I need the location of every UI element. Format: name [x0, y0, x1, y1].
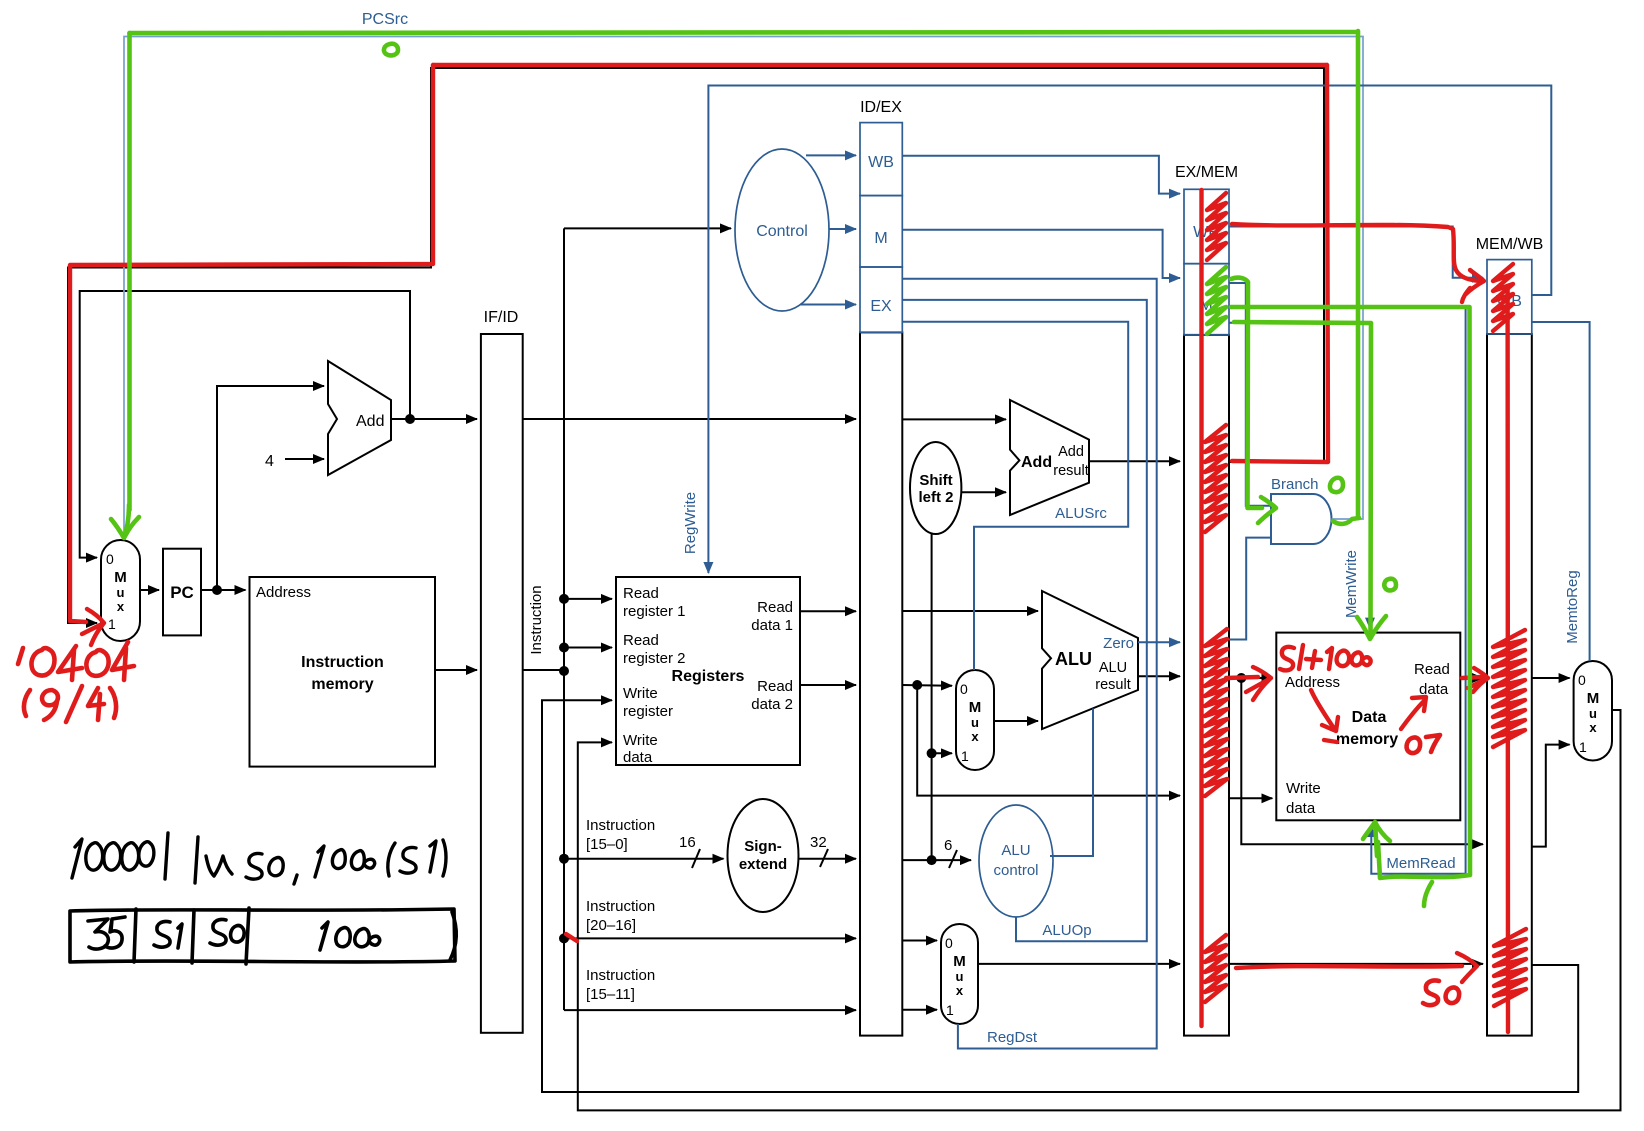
red trace regnum wire with S0: [1236, 966, 1462, 968]
wire read data 1 from ID/EX to ALU: [902, 610, 1038, 612]
svg-text:1: 1: [946, 1002, 954, 1018]
red trace left loop to mux 1: [70, 65, 433, 622]
red arrowhead into MEM/WB WB: [1462, 270, 1484, 302]
red vertical through EX/MEM: [1199, 190, 1203, 1026]
wire ALU result to EX/MEM: [1138, 675, 1180, 677]
svg-text:[20–16]: [20–16]: [586, 917, 636, 934]
wire read data 2 to ID/EX: [800, 684, 856, 686]
svg-text:Write: Write: [623, 732, 658, 749]
wire read data 1 to ID/EX: [800, 610, 856, 612]
green trace PCSrc right vertical: [1356, 31, 1361, 518]
red arrow address to memory: [1311, 690, 1333, 727]
wire register number feedback to write register: [542, 700, 1578, 1092]
wire Control to ID/EX EX: [800, 304, 856, 306]
wire PC up to Add input 1: [217, 386, 324, 590]
svg-text:Write: Write: [1286, 780, 1321, 797]
wire MemtoReg from MEM/WB to mux select: [1532, 322, 1590, 661]
handwritten 100: [320, 922, 328, 950]
svg-text:control: control: [993, 862, 1038, 879]
green trace PCSrc top: [130, 32, 1357, 33]
svg-text:M: M: [953, 953, 966, 970]
svg-text:Zero: Zero: [1103, 635, 1134, 652]
svg-text:Branch: Branch: [1271, 476, 1319, 493]
svg-text:Instruction: Instruction: [528, 585, 545, 654]
data memory: [1276, 633, 1460, 821]
wire Add output to IF/ID: [391, 418, 477, 420]
wire Control to ID/EX M: [829, 228, 856, 230]
wire immediate from ID/EX to ALU control: [902, 859, 971, 861]
svg-text:RegWrite: RegWrite: [682, 492, 699, 554]
handwritten 35: [88, 919, 108, 949]
svg-text:WB: WB: [868, 154, 894, 171]
red trace over branch-target wire: [1232, 224, 1479, 281]
svg-text:EX: EX: [870, 298, 892, 315]
EX/MEM pipeline register: [1184, 335, 1229, 1036]
svg-text:M: M: [969, 699, 982, 716]
red arrowhead into address: [1246, 667, 1271, 700]
svg-text:extend: extend: [739, 856, 787, 873]
svg-text:u: u: [956, 969, 964, 984]
wire instruction [15-11] to ID/EX: [564, 1009, 856, 1011]
EX/MEM M box: [1184, 264, 1229, 335]
green zero scribble near PCSrc: [384, 44, 398, 56]
wire PC+4 through IF/ID to ID/EX: [523, 418, 856, 420]
svg-text:x: x: [956, 983, 964, 998]
green zero near Branch label: [1330, 478, 1343, 492]
red scribble EX/MEM WB box: [1207, 193, 1226, 260]
box right hook: [450, 912, 456, 960]
registers file: [616, 577, 800, 765]
wire read data 2 from ID/EX to ALUSrc mux 0: [902, 684, 952, 687]
green trace branch signal to AND gate: [1231, 278, 1262, 508]
svg-text:EX/MEM: EX/MEM: [1175, 164, 1238, 181]
blue text labels: [362, 11, 1581, 1046]
svg-text:32: 32: [810, 834, 827, 851]
svg-text:u: u: [1589, 706, 1597, 721]
svg-text:data: data: [1286, 800, 1316, 817]
green trace MemRead: [1231, 307, 1470, 878]
svg-text:1: 1: [108, 616, 116, 632]
wire MemWrite control: [1229, 323, 1370, 629]
green trace PCSrc left vertical with arrow: [127, 33, 132, 510]
slash 16-bit bus: [692, 849, 700, 868]
red vertical through MEM/WB: [1505, 290, 1510, 1032]
wire read data from memory to MEM/WB: [1460, 677, 1483, 679]
green hand annotations: [111, 31, 1470, 906]
wire ALU result from EX/MEM to data memory address: [1229, 677, 1272, 679]
svg-text:register: register: [623, 703, 673, 720]
wire RegDst mux output to EX/MEM: [978, 963, 1180, 965]
svg-text:PC: PC: [170, 583, 194, 602]
svg-text:1: 1: [961, 748, 969, 764]
blue control layer: [124, 37, 1590, 1049]
branch AND gate: [1271, 494, 1332, 544]
svg-text:Data: Data: [1352, 709, 1387, 726]
svg-text:ALU: ALU: [1099, 660, 1127, 676]
svg-text:M: M: [114, 569, 127, 586]
red hand text S1+100: [1280, 645, 1371, 670]
svg-text:result: result: [1053, 463, 1088, 479]
red trace top horizontal: [433, 63, 1327, 67]
svg-text:MemtoReg: MemtoReg: [1564, 570, 1581, 643]
MEM/WB pipeline register: [1487, 334, 1532, 1036]
svg-text:Add: Add: [1058, 444, 1084, 460]
svg-text:Read: Read: [1414, 661, 1450, 678]
svg-text:Write: Write: [623, 685, 658, 702]
svg-text:memory: memory: [1336, 731, 1398, 748]
wire ALUSrc control: [902, 322, 1128, 670]
wire ALUSrc mux output to ALU: [994, 720, 1038, 722]
red scribble MEM/WB regnum: [1494, 929, 1526, 1006]
wire M bundle ID/EX to EX/MEM: [902, 230, 1180, 278]
svg-text:ALUSrc: ALUSrc: [1055, 505, 1107, 522]
wire immediate to ALUSrc mux 1: [932, 752, 952, 754]
svg-text:0: 0: [945, 935, 953, 951]
svg-text:Instruction: Instruction: [586, 817, 655, 834]
wire zero from EX/MEM to AND gate: [1229, 538, 1271, 640]
svg-text:register 1: register 1: [623, 603, 686, 620]
MEM/WB WB box: [1487, 260, 1532, 334]
svg-text:ALU: ALU: [1055, 649, 1092, 669]
red scribble EX/MEM alu-result: [1205, 629, 1227, 796]
wire ALU result bypass below data memory to MEM/WB: [1241, 678, 1483, 844]
svg-text:data: data: [623, 749, 653, 766]
PC register: [163, 549, 201, 636]
ID/EX pipeline register: [860, 332, 902, 1035]
svg-text:0: 0: [1578, 672, 1586, 688]
svg-text:IF/ID: IF/ID: [484, 309, 519, 326]
svg-text:MemRead: MemRead: [1386, 855, 1455, 872]
svg-text:memory: memory: [311, 676, 373, 693]
red tick at instruction [20-16] junction: [566, 934, 577, 941]
svg-text:[15–0]: [15–0]: [586, 836, 628, 853]
black handwriting: [70, 833, 456, 964]
MemtoReg mux: [1574, 661, 1612, 761]
red hand text 0404: [18, 642, 134, 680]
svg-text:Read: Read: [623, 632, 659, 649]
svg-text:Instruction: Instruction: [586, 898, 655, 915]
sign-extend unit: [728, 799, 799, 912]
svg-text:result: result: [1095, 677, 1130, 693]
svg-text:PCSrc: PCSrc: [362, 11, 408, 28]
wire WB bundle ID/EX to EX/MEM: [902, 156, 1180, 194]
green scribble EX/MEM M box: [1207, 267, 1226, 334]
wire ALUOp control: [902, 300, 1147, 941]
svg-text:ALU: ALU: [1001, 842, 1030, 859]
wire read data from MEM/WB to MemtoReg mux 0: [1532, 677, 1570, 679]
red scribble MEM/WB WB box: [1493, 264, 1513, 331]
wire PC+4 from ID/EX to branch adder: [902, 418, 1006, 420]
svg-text:x: x: [117, 599, 125, 614]
svg-text:0: 0: [960, 681, 968, 697]
red trace read data output: [1462, 677, 1482, 678]
EX/MEM WB box: [1184, 189, 1229, 263]
wire Control to ID/EX WB: [806, 154, 856, 156]
svg-text:0: 0: [106, 551, 114, 567]
wire instruction memory to IF/ID: [435, 669, 477, 671]
red trace address wire: [1226, 677, 1258, 678]
svg-text:6: 6: [944, 837, 952, 854]
red arrowhead into MEM/WB regnum: [1457, 953, 1477, 982]
PC mux: [101, 540, 140, 641]
wire PCSrc from AND gate to PC mux select: [124, 37, 1363, 537]
svg-text:Instruction: Instruction: [301, 654, 384, 671]
wire instruction from IF/ID: [523, 669, 564, 671]
ID/EX WB box: [860, 123, 902, 196]
svg-text:Sign-: Sign-: [744, 838, 782, 855]
wire RegDst control: [902, 279, 1156, 1049]
green squiggle AND gate output: [1333, 518, 1359, 524]
svg-text:left 2: left 2: [918, 489, 953, 506]
handwritten S1: [154, 921, 170, 947]
red hand text S0: [1423, 980, 1459, 1005]
main ALU: [1042, 591, 1138, 729]
box divider 2: [192, 910, 194, 963]
svg-text:Add: Add: [1021, 454, 1052, 471]
wire constant 4 to Add: [285, 458, 324, 460]
wire branch control to AND gate: [1229, 283, 1271, 506]
wire instr [15-11] to RegDst mux 1: [902, 1009, 937, 1011]
red scribble EX/MEM regnum: [1205, 935, 1226, 1002]
wire instruction to read register 1: [564, 598, 612, 600]
instruction memory: [250, 577, 436, 767]
svg-text:4: 4: [265, 453, 274, 470]
PC+4 adder: [328, 361, 391, 475]
wire shift left 2 to branch adder: [961, 491, 1006, 493]
red scribble MEM/WB read-data: [1493, 630, 1525, 747]
red scribble EX/MEM add-result: [1205, 425, 1226, 532]
svg-text:register 2: register 2: [623, 650, 686, 667]
svg-text:u: u: [117, 585, 125, 600]
red arrow memory to read data: [1401, 701, 1424, 729]
svg-text:Registers: Registers: [672, 668, 745, 685]
green slash below MemRead: [1424, 882, 1432, 906]
svg-text:Instruction: Instruction: [586, 967, 655, 984]
wire RegWrite from MEM/WB to registers: [708, 86, 1551, 574]
wire instr [20-16] to RegDst mux 0: [902, 940, 937, 942]
svg-text:data 2: data 2: [751, 696, 793, 713]
wire instruction [20-16] to ID/EX: [564, 937, 856, 939]
svg-text:Shift: Shift: [919, 472, 952, 489]
wire PC to instruction memory Address: [201, 589, 246, 591]
shift left 2 unit: [910, 442, 961, 534]
ALU control oval: [979, 805, 1053, 917]
svg-text:Control: Control: [756, 223, 808, 240]
wire ALU result from MEM/WB to MemtoReg mux 1: [1532, 745, 1570, 847]
svg-text:data 1: data 1: [751, 617, 793, 634]
svg-text:RegDst: RegDst: [987, 1029, 1038, 1046]
svg-text:Read: Read: [757, 678, 793, 695]
green trace MemWrite: [1234, 322, 1371, 634]
wire instruction to read register 2: [564, 647, 612, 649]
svg-text:16: 16: [679, 834, 696, 851]
wire register number from EX/MEM to MEM/WB: [1229, 963, 1483, 965]
svg-text:Add: Add: [356, 413, 384, 430]
wire immediate vertical to shift left 2: [931, 534, 933, 860]
svg-text:MEM/WB: MEM/WB: [1476, 236, 1544, 253]
svg-text:ALUOp: ALUOp: [1042, 922, 1091, 939]
wire sign-extend output to ID/EX: [799, 858, 856, 860]
red hand annotations: [18, 65, 1526, 1032]
svg-text:u: u: [971, 715, 979, 730]
box divider 3: [246, 908, 249, 964]
branch target adder: [1010, 400, 1089, 515]
wire ALU control to ALU: [1050, 709, 1093, 857]
wire B value from EX/MEM to data memory write data: [1229, 797, 1272, 799]
control unit oval: [735, 149, 829, 311]
wire read data 2 down to EX/MEM write data: [917, 685, 1180, 796]
IF/ID pipeline register: [481, 334, 523, 1033]
svg-text:M: M: [874, 230, 887, 247]
box divider 1: [134, 909, 136, 962]
green arrowhead into AND gate: [1258, 497, 1276, 523]
svg-text:Read: Read: [623, 585, 659, 602]
svg-text:Read: Read: [757, 599, 793, 616]
wire MemRead control: [1229, 308, 1466, 874]
green arrowhead into PC mux: [111, 505, 139, 538]
svg-text:[15–11]: [15–11]: [586, 986, 635, 1003]
handwritten opcode box: [70, 909, 455, 962]
RegDst mux: [941, 924, 978, 1024]
wire MemtoReg mux output back to register write data: [578, 710, 1621, 1110]
wire instruction to Control: [564, 227, 731, 229]
svg-text:M: M: [1587, 690, 1600, 707]
handwritten instruction text 10000 | lw S0,100(S1): [72, 833, 446, 884]
svg-text:MemWrite: MemWrite: [1343, 550, 1360, 618]
svg-text:1: 1: [1579, 739, 1587, 755]
svg-text:x: x: [1589, 720, 1597, 735]
wire ALU zero to EX/MEM: [1138, 641, 1180, 643]
green zero near MemWrite: [1384, 579, 1396, 591]
wire branch adder result to EX/MEM: [1089, 460, 1180, 462]
wire instruction vertical bus: [563, 228, 565, 1010]
svg-text:ID/EX: ID/EX: [860, 99, 902, 116]
slash 6-bit bus: [949, 850, 957, 868]
red hand text (9/4): [24, 686, 116, 722]
wire WB bundle EX/MEM to MEM/WB: [1229, 227, 1483, 278]
green arrowhead up into memory bottom: [1363, 822, 1390, 856]
wire PC+4 feedback to mux input 0: [80, 291, 410, 558]
svg-text:x: x: [971, 729, 979, 744]
red trace vertical right: [1232, 65, 1328, 462]
slash 32-bit bus: [820, 849, 828, 867]
ID/EX M box: [860, 196, 902, 267]
red hand text 07: [1407, 735, 1440, 753]
wire instruction [15-0] to sign extend: [564, 858, 724, 860]
handwritten S0: [210, 919, 226, 945]
green arrowhead down into memory top: [1357, 616, 1386, 639]
black text labels: [106, 99, 1599, 1018]
ID/EX EX box: [860, 267, 902, 332]
wire mux to PC: [140, 589, 159, 591]
wire branch target from EX/MEM back to mux input 1: [68, 68, 1324, 623]
svg-text:Address: Address: [256, 584, 311, 601]
ALUSrc mux: [956, 670, 994, 770]
red arrowhead into mux input 1: [82, 609, 104, 645]
